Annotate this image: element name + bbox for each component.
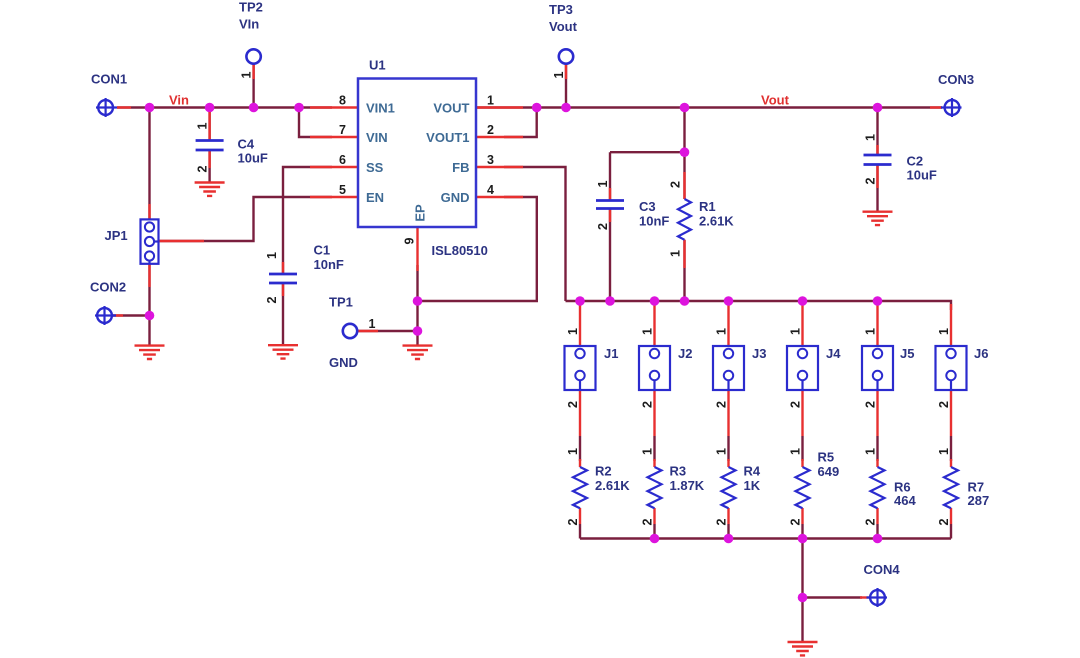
capacitor C4 10uF (196, 112, 268, 172)
svg-text:649: 649 (818, 464, 840, 479)
wire: U1 GND pin 4 return to EP node (418, 197, 537, 301)
svg-text:CON3: CON3 (938, 72, 974, 87)
pin stub: CON1 lead (117, 106, 131, 108)
wire: R6 to bottom bus (876, 524, 878, 539)
ground symbol under JP1/CON2 (135, 346, 165, 359)
svg-text:TP2: TP2 (239, 0, 263, 15)
svg-text:CON2: CON2 (90, 280, 126, 295)
pin stub: TP2 pin 1 (240, 64, 254, 79)
svg-text:VOUT: VOUT (433, 101, 469, 116)
resistor R2 2.61K (573, 464, 630, 509)
svg-text:2: 2 (789, 401, 803, 408)
wire: C2 branch from Vout rail to ground (876, 108, 878, 213)
svg-text:2: 2 (937, 401, 951, 408)
svg-text:J5: J5 (900, 346, 914, 361)
svg-text:GND: GND (441, 190, 470, 205)
wire: J2 feed from bus (red) (653, 302, 655, 348)
svg-text:2: 2 (864, 518, 878, 525)
wire: J1 to R2 link (579, 436, 581, 461)
pin stub: CON3 lead (930, 106, 942, 108)
junction: bus / J1 (575, 296, 585, 306)
wire: J4 to R5 link (801, 436, 803, 461)
pin stub: R6 pin 1 upper (864, 448, 878, 467)
svg-text:2: 2 (715, 401, 729, 408)
svg-text:2: 2 (265, 296, 279, 303)
svg-text:CON1: CON1 (91, 72, 127, 87)
svg-text:1: 1 (265, 252, 279, 259)
svg-text:C3: C3 (639, 199, 656, 214)
wire: bottom bus joining R2..R7 (580, 537, 951, 539)
junction: bus / J5 (873, 296, 883, 306)
wire: C3 branch and link to R1 node (610, 152, 685, 301)
U1 pin 7 VIN (310, 123, 358, 137)
header JP1 (105, 219, 159, 263)
U1 pin 4 GND (476, 183, 523, 197)
svg-text:1: 1 (937, 328, 951, 335)
svg-text:VIN1: VIN1 (366, 101, 395, 116)
U1 pin 1 VOUT (476, 94, 523, 108)
wire: R3 to bottom bus (653, 524, 655, 539)
svg-text:7: 7 (339, 123, 346, 137)
svg-text:TP3: TP3 (549, 2, 573, 17)
svg-text:1: 1 (937, 448, 951, 455)
svg-text:TP1: TP1 (329, 295, 353, 310)
junction: bottom bus / R6 (873, 534, 883, 544)
svg-text:VIn: VIn (239, 17, 259, 32)
svg-text:1K: 1K (744, 478, 761, 493)
pin stub: J1 bottom red (579, 390, 581, 436)
pin labels: J2 1/2 (641, 328, 655, 408)
svg-text:R2: R2 (595, 464, 612, 479)
wire: J6 to R7 link (950, 436, 952, 461)
junction: EP node / TP1 (413, 326, 423, 336)
connector CON2 (90, 280, 126, 326)
junction: Vout rail / TP3 (561, 103, 571, 113)
svg-text:10nF: 10nF (314, 257, 344, 272)
connector CON1 (91, 72, 127, 118)
U1 pin 6 SS (310, 153, 358, 167)
wire: U1 EN pin 5 to JP1 pin 2 (159, 197, 332, 241)
pin stub: R3 pin 1 upper (641, 448, 655, 467)
junction: Vin rail / JP1 branch (145, 103, 155, 113)
svg-text:Vin: Vin (169, 93, 189, 108)
wire: TP1 link to EP node (358, 330, 418, 332)
svg-text:J4: J4 (826, 346, 841, 361)
wire: Vin rail from CON1 to U1 pin 8 (117, 106, 332, 108)
junction: Vin rail / C4 branch (205, 103, 215, 113)
op-amp U1 ISL80510 regulator body (358, 58, 488, 259)
connector CON3 (938, 72, 974, 117)
junction: CON4 node (798, 593, 808, 603)
test point TP1 (GND) (329, 295, 358, 371)
pin stub: R2 pin 2 lower (566, 508, 580, 525)
junction: Vout rail / VOUT1 branch (532, 103, 542, 113)
wire: CON2 to JP1 pin 3 and ground (112, 264, 150, 346)
svg-text:6: 6 (339, 153, 346, 167)
header J3 (713, 346, 766, 390)
U1 pin 2 VOUT1 (476, 123, 523, 137)
svg-text:1: 1 (715, 328, 729, 335)
pin stub: R1 pin 1 lower (669, 240, 685, 268)
svg-text:R4: R4 (744, 464, 761, 479)
svg-text:1: 1 (641, 448, 655, 455)
svg-text:CON4: CON4 (864, 562, 901, 577)
svg-text:2: 2 (641, 401, 655, 408)
junction: bus / J2 (650, 296, 660, 306)
header J5 (862, 346, 914, 390)
wire: Vout rail from U1 pin 1 to CON3 (476, 106, 942, 108)
svg-text:9: 9 (403, 237, 417, 244)
junction: Vin rail / pin7 branch (294, 103, 304, 113)
test point TP3 (Vout) (549, 2, 578, 64)
svg-text:2: 2 (669, 181, 683, 188)
svg-text:2: 2 (789, 518, 803, 525)
wire: R1 branch from Vout rail to FB bus (683, 108, 685, 302)
svg-text:C1: C1 (314, 243, 331, 258)
pin stub: CON2 lead (113, 314, 123, 316)
wire: R7 to bottom bus (950, 524, 952, 539)
svg-text:1: 1 (240, 71, 254, 78)
U1 pin 3 FB (476, 153, 523, 167)
svg-text:1: 1 (864, 328, 878, 335)
svg-text:Vout: Vout (549, 19, 578, 34)
wire: J1 feed from bus (red) (579, 302, 581, 348)
pin stub: JP1 middle feed (159, 240, 204, 242)
svg-text:2: 2 (641, 518, 655, 525)
svg-text:VIN: VIN (366, 130, 388, 145)
svg-text:1: 1 (566, 328, 580, 335)
svg-text:2.61K: 2.61K (595, 478, 630, 493)
svg-text:EN: EN (366, 190, 384, 205)
wire: C4 branch from Vin rail to ground (208, 108, 210, 183)
pin labels: J3 1/2 (715, 328, 729, 408)
pin stub: J4 bottom red (801, 390, 803, 436)
svg-text:2: 2 (937, 518, 951, 525)
svg-text:VOUT1: VOUT1 (426, 130, 469, 145)
svg-text:8: 8 (339, 94, 346, 108)
pin stub: J5 bottom red (876, 390, 878, 436)
pin labels: J1 1/2 (566, 328, 580, 408)
pin stub: R5 pin 1 upper (789, 448, 803, 467)
svg-text:5: 5 (339, 183, 346, 197)
wire: R2 to bottom bus (579, 524, 581, 539)
junction: EP node / GND return (413, 296, 423, 306)
svg-text:2: 2 (566, 518, 580, 525)
junction: bus / R1 (680, 296, 690, 306)
wire: R5 to bottom bus (801, 524, 803, 539)
svg-text:C4: C4 (238, 137, 255, 152)
wire: U1 VOUT1 pin 2 branch up to Vout rail (504, 108, 537, 138)
wire: TP2 stub down to Vin rail (252, 64, 254, 108)
svg-text:1: 1 (369, 317, 376, 331)
junction: Vout rail / R1 branch (680, 103, 690, 113)
header J6 (936, 346, 989, 390)
pin stub: R3 pin 2 lower (641, 508, 655, 525)
wire: U1 SS pin 6 to C1 and ground (283, 167, 332, 345)
wire: J5 feed from bus (red) (876, 302, 878, 348)
header J2 (639, 346, 692, 390)
svg-text:J3: J3 (752, 346, 766, 361)
pin stub: R1 pin 2 upper (669, 172, 685, 199)
svg-text:J2: J2 (678, 346, 692, 361)
wire: J4 feed from bus (red) (801, 302, 803, 348)
junction: bus / J3 (724, 296, 734, 306)
wire: bottom bus down to CON4 node and ground (803, 539, 863, 643)
pin stub: R4 pin 1 upper (715, 448, 729, 467)
pin stub: J6 bottom red (950, 390, 952, 436)
svg-text:2: 2 (196, 165, 210, 172)
pin labels: J5 1/2 (864, 328, 878, 408)
ground symbol under C4 (195, 183, 225, 196)
U1 pin 9 EP (403, 227, 418, 271)
wire: FB divider bus to J1..J6 (566, 301, 952, 310)
pin stub: R2 pin 1 upper (566, 448, 580, 467)
svg-text:2: 2 (566, 401, 580, 408)
svg-text:287: 287 (968, 493, 990, 508)
wire: branch down to U1 pin 7 (299, 108, 332, 138)
svg-text:ISL80510: ISL80510 (432, 243, 488, 258)
svg-text:1: 1 (641, 328, 655, 335)
pin stub: R7 pin 1 upper (937, 448, 951, 467)
pin labels: J6 1/2 (937, 328, 951, 408)
junction: Vin rail / TP2 (249, 103, 259, 113)
capacitor C2 10uF (864, 134, 937, 188)
svg-text:SS: SS (366, 160, 384, 175)
connector CON4 (864, 562, 901, 607)
svg-text:1: 1 (669, 250, 683, 257)
svg-text:2: 2 (864, 401, 878, 408)
svg-text:10nF: 10nF (639, 214, 669, 229)
wire: J6 feed from bus (red) (950, 304, 952, 348)
svg-text:1: 1 (196, 122, 210, 129)
wire: branch from Vin rail down to JP1 pin 1 (148, 108, 150, 220)
ground symbol under C1 (268, 345, 298, 358)
test point TP2 (VIn) (239, 0, 263, 64)
svg-text:1: 1 (864, 448, 878, 455)
ground symbol under EP/TP1 (403, 346, 433, 359)
svg-text:U1: U1 (369, 58, 386, 73)
U1 pin 8 VIN1 (310, 94, 358, 108)
resistor R6 464 (871, 467, 917, 508)
svg-text:1: 1 (789, 328, 803, 335)
svg-text:2: 2 (487, 123, 494, 137)
pin stub: R7 pin 2 lower (937, 508, 951, 525)
junction: bus / C3 (605, 296, 615, 306)
resistor R4 1K (722, 464, 761, 509)
svg-text:1: 1 (552, 71, 566, 78)
svg-text:EP: EP (413, 204, 428, 222)
junction: R1 / C3 link (680, 147, 690, 157)
pin stub: TP3 pin 1 (552, 64, 566, 79)
resistor R7 287 (944, 467, 989, 508)
svg-text:1: 1 (566, 448, 580, 455)
pin stub: JP1 top feed (148, 204, 150, 219)
svg-text:1: 1 (596, 180, 610, 187)
svg-text:GND: GND (329, 355, 358, 370)
ground symbol under CON4 (788, 642, 818, 655)
junction: bus / J4 (798, 296, 808, 306)
capacitor C1 10nF (265, 243, 344, 304)
junction: bottom bus / R3 (650, 534, 660, 544)
pin stub: R4 pin 2 lower (715, 508, 729, 525)
junction: Vout rail / C2 branch (873, 103, 883, 113)
svg-text:4: 4 (487, 183, 494, 197)
svg-text:1: 1 (487, 94, 494, 108)
svg-text:1.87K: 1.87K (670, 478, 705, 493)
svg-text:2: 2 (715, 518, 729, 525)
wire: J2 to R3 link (653, 436, 655, 461)
pin stub: TP1 pin 1 (358, 317, 379, 331)
wire: U1 FB pin 3 down to divider bus (504, 167, 566, 301)
pin stub: JP1 bottom feed (148, 264, 150, 287)
svg-text:464: 464 (894, 493, 916, 508)
header J1 (565, 346, 619, 390)
svg-text:2.61K: 2.61K (699, 214, 734, 229)
svg-text:C2: C2 (907, 154, 924, 169)
wire: J3 feed from bus (red) (727, 302, 729, 348)
header J4 (787, 346, 841, 390)
svg-text:10uF: 10uF (907, 168, 937, 183)
wire: TP3 stub down to Vout rail (565, 64, 567, 108)
ground symbol under C2 (863, 212, 893, 225)
pin stub: J2 bottom red (653, 390, 655, 436)
pin stub: CON4 lead (860, 596, 869, 598)
U1 pin 5 EN (310, 183, 358, 197)
svg-text:10uF: 10uF (238, 151, 268, 166)
svg-text:R1: R1 (699, 199, 716, 214)
svg-text:R5: R5 (818, 450, 835, 465)
svg-text:1: 1 (789, 448, 803, 455)
pin stub: J3 bottom red (727, 390, 729, 436)
svg-text:2: 2 (864, 177, 878, 184)
svg-text:2: 2 (596, 223, 610, 230)
pin labels: J4 1/2 (789, 328, 803, 408)
svg-text:FB: FB (452, 160, 469, 175)
wire: J3 to R4 link (727, 436, 729, 461)
pin stub: R5 pin 2 lower (789, 508, 803, 525)
junction: bottom bus / R4 (724, 534, 734, 544)
svg-text:1: 1 (864, 134, 878, 141)
svg-text:J6: J6 (974, 346, 988, 361)
wire: R4 to bottom bus (727, 524, 729, 539)
resistor R5 649 (796, 450, 840, 509)
svg-text:R3: R3 (670, 464, 687, 479)
junction: bottom bus / CON4 drop (798, 534, 808, 544)
capacitor C3 10nF (596, 180, 669, 230)
resistor R3 1.87K (648, 464, 705, 509)
pin stub: R6 pin 2 lower (864, 508, 878, 525)
resistor R1 2.61K (678, 199, 734, 240)
svg-text:Vout: Vout (761, 93, 790, 108)
svg-text:1: 1 (715, 448, 729, 455)
junction: CON2 / JP1 ground (145, 311, 155, 321)
svg-text:J1: J1 (604, 346, 618, 361)
svg-text:JP1: JP1 (105, 228, 128, 243)
wire: EP pin down to ground (416, 265, 418, 346)
wire: J5 to R6 link (876, 436, 878, 461)
svg-text:3: 3 (487, 153, 494, 167)
